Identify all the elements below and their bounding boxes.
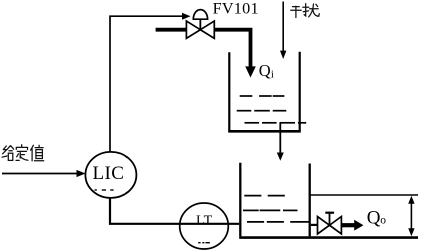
label 干扰 (disturbance) (291, 4, 320, 18)
transmitter LT circle (180, 203, 229, 249)
liquid surface reference line (right) (310, 194, 418, 196)
pipe: thick inlet line left of valve (156, 28, 187, 32)
svg-text:Q: Q (259, 61, 271, 80)
upper tank left wall (228, 52, 230, 130)
drain line from upper tank (279, 123, 281, 154)
LIC internal dashes (95, 189, 114, 191)
upper tank right wall (299, 52, 301, 131)
controller LIC circle (85, 152, 136, 198)
upper tank level dashes row1 (240, 95, 285, 97)
level measurement double arrow (410, 198, 412, 234)
svg-text:o: o (380, 215, 386, 227)
upper tank bottom (228, 130, 301, 133)
lower tank bottom (239, 236, 418, 239)
pipe: valve to corner, down into upper tank (214, 28, 250, 67)
pipe: tank to manual valve (311, 224, 318, 226)
lower tank right wall (309, 164, 311, 237)
valve stem (199, 19, 201, 30)
control valve FV101 bowtie (186, 21, 200, 38)
wire: setpoint arrow to LIC (2, 173, 79, 175)
lower tank level dashes row2 (243, 209, 298, 211)
svg-text:FV101: FV101 (213, 0, 259, 18)
svg-text:LT: LT (196, 214, 213, 229)
svg-text:i: i (271, 68, 274, 80)
wire: LIC top up and right to valve (110, 16, 183, 152)
lower tank left wall (239, 163, 241, 237)
lower tank level dashes row3 (247, 221, 309, 223)
label 给定值 (setpoint) (2, 145, 44, 161)
lower tank level dashes row1 (244, 195, 284, 197)
upper tank level dashes row3 (245, 122, 307, 124)
LT internal dashes (198, 242, 210, 244)
wire: LIC bottom down and right to tank (through LT) (110, 198, 239, 224)
svg-text:LIC: LIC (92, 163, 124, 184)
arrowhead Qi inflow (245, 66, 256, 77)
outflow thick arrow (342, 223, 356, 227)
disturbance arrow (282, 2, 284, 52)
svg-text:Q: Q (367, 208, 381, 229)
upper tank level dashes row2 (237, 110, 287, 112)
manual valve T-handle (329, 213, 331, 226)
manual valve bowtie (318, 217, 330, 234)
valve actuator dome (193, 10, 207, 20)
